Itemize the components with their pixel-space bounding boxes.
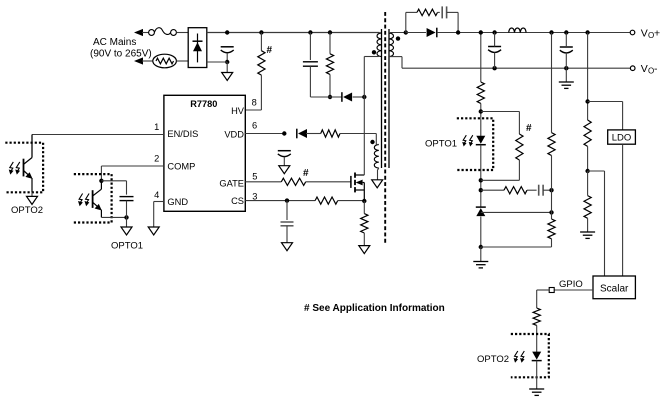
svg-text:OPTO1: OPTO1 xyxy=(111,240,143,251)
svg-text:#: # xyxy=(526,123,532,134)
svg-text:GATE: GATE xyxy=(219,178,244,188)
svg-text:(90V to 265V): (90V to 265V) xyxy=(90,49,152,60)
svg-text:AC Mains: AC Mains xyxy=(93,37,136,48)
svg-text:GPIO: GPIO xyxy=(559,279,583,290)
svg-text:HV: HV xyxy=(231,106,245,116)
svg-text:R7780: R7780 xyxy=(190,99,217,109)
svg-text:-: - xyxy=(654,63,658,75)
svg-text:EN/DIS: EN/DIS xyxy=(167,129,198,139)
svg-text:#: # xyxy=(303,168,309,179)
svg-text:OPTO2: OPTO2 xyxy=(477,354,509,365)
svg-text:OPTO2: OPTO2 xyxy=(11,205,43,216)
svg-text:COMP: COMP xyxy=(167,161,195,171)
svg-text:CS: CS xyxy=(231,196,244,206)
svg-text:V: V xyxy=(641,63,648,75)
svg-text:5: 5 xyxy=(252,172,257,182)
svg-text:8: 8 xyxy=(252,98,257,108)
svg-text:#: # xyxy=(267,45,273,56)
svg-text:GND: GND xyxy=(167,197,188,207)
svg-text:VDD: VDD xyxy=(224,130,244,140)
svg-text:# See Application Information: # See Application Information xyxy=(304,303,445,314)
svg-text:+: + xyxy=(654,27,660,39)
svg-text:1: 1 xyxy=(154,122,159,132)
svg-text:4: 4 xyxy=(154,190,159,200)
svg-text:V: V xyxy=(641,28,648,40)
svg-text:LDO: LDO xyxy=(612,133,632,144)
svg-text:OPTO1: OPTO1 xyxy=(425,139,457,150)
svg-text:3: 3 xyxy=(252,192,257,202)
svg-text:6: 6 xyxy=(252,120,257,130)
svg-text:2: 2 xyxy=(154,154,159,164)
svg-text:Scalar: Scalar xyxy=(600,283,629,294)
